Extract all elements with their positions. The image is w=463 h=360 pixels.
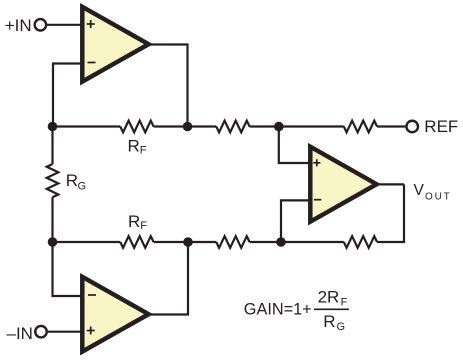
op-amp A2 minus input symbol <box>88 294 96 296</box>
svg-text:–IN: –IN <box>7 324 33 343</box>
op-amp A1 plus input symbol <box>87 20 95 28</box>
op-amp A3 plus input symbol <box>313 159 320 166</box>
node A junction dot <box>48 122 58 132</box>
svg-text:F: F <box>140 145 147 157</box>
svg-text:R: R <box>128 212 140 231</box>
op-amp A2 <box>82 277 148 352</box>
resistor RF2 zigzag <box>120 236 153 248</box>
svg-text:R: R <box>66 171 78 190</box>
svg-text:F: F <box>341 297 348 309</box>
terminal +IN <box>35 19 47 31</box>
wire RF2 to node E <box>154 241 217 243</box>
node C junction dot <box>274 122 284 132</box>
wire node C to A3 noninverting input <box>279 127 310 164</box>
node E junction dot <box>183 237 193 247</box>
svg-text:2R: 2R <box>318 288 340 307</box>
svg-text:G: G <box>337 321 346 333</box>
wire node D to A2 inverting input <box>53 242 83 296</box>
terminal -IN <box>35 326 47 338</box>
wire -IN terminal to A2 noninverting input <box>48 331 82 333</box>
op-amp A2 plus input symbol <box>87 327 95 335</box>
terminal REF <box>406 121 418 133</box>
svg-text:REF: REF <box>424 117 458 136</box>
resistor RF1 zigzag <box>120 121 153 133</box>
wire node A to resistor RG <box>51 127 53 165</box>
svg-text:F: F <box>140 220 147 232</box>
svg-text:+IN: +IN <box>5 16 32 35</box>
wire A3 output <box>376 183 404 185</box>
wire R3 to node F and on to resistor R4 <box>250 241 344 243</box>
svg-text:G: G <box>78 181 87 193</box>
wire A3 inverting input to node F <box>281 200 310 242</box>
svg-text:OUT: OUT <box>425 192 452 203</box>
wire A2 output to node E <box>146 242 188 315</box>
wire R2 to REF terminal <box>377 125 405 127</box>
resistor R2 zigzag (node C to REF) <box>344 121 377 133</box>
svg-text:R: R <box>323 312 335 331</box>
node B junction dot <box>183 122 193 132</box>
svg-text:R: R <box>128 137 140 156</box>
wire node D to resistor RF2 <box>53 241 121 243</box>
op-amp A3 <box>310 147 376 222</box>
resistor R4 zigzag (node F to A3 output) <box>344 236 377 248</box>
wire RF1 to node B <box>154 125 217 127</box>
op-amp A1 <box>82 7 148 82</box>
wire node A to resistor RF1 <box>53 125 121 127</box>
resistor RG zigzag (vertical) <box>47 164 59 197</box>
node F junction dot <box>276 237 286 247</box>
svg-text:GAIN=1+: GAIN=1+ <box>244 301 312 319</box>
op-amp A1 minus input symbol <box>88 62 96 64</box>
wire RG to node D <box>51 197 53 242</box>
svg-text:V: V <box>414 182 425 199</box>
wire R4 up to A3 output <box>377 184 404 242</box>
gain formula fraction bar <box>314 308 349 310</box>
wire +IN terminal to A1 noninverting input <box>47 24 82 26</box>
node D junction dot <box>48 237 58 247</box>
op-amp A3 minus input symbol <box>314 199 321 201</box>
wire R1 to node C and on to resistor R2 <box>250 125 344 127</box>
wire A1 output to node B <box>146 45 188 127</box>
resistor R1 zigzag (node B to node C) <box>216 121 249 133</box>
resistor R3 zigzag (node E to node F) <box>216 236 249 248</box>
wire A1 inverting input to node A <box>53 64 82 127</box>
